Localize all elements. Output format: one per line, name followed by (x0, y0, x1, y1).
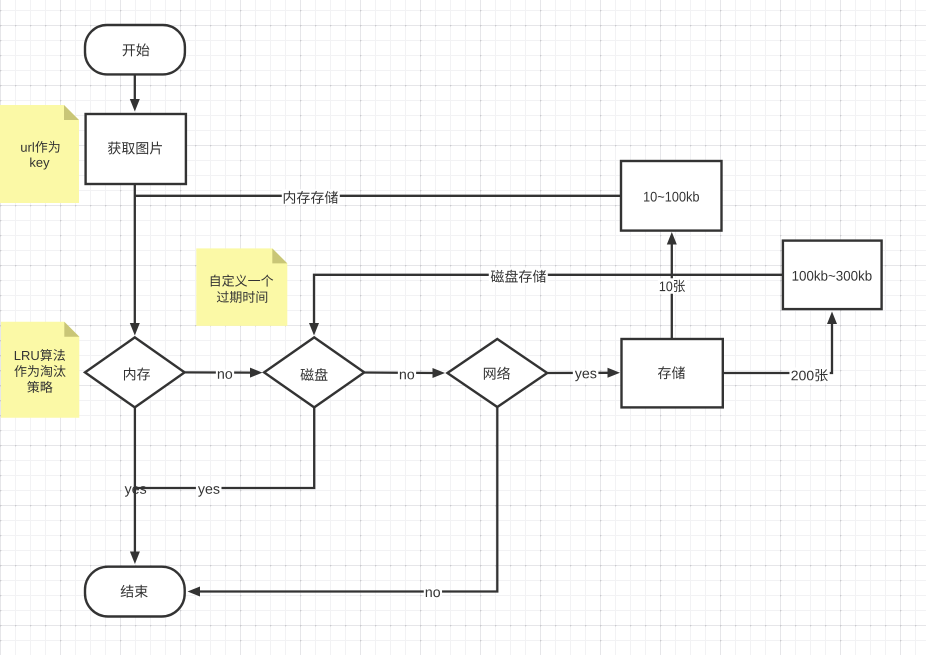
wire: 获取图片 → 10~100kb (内存存储 branch) (135, 195, 621, 197)
wire: 网络 → 结束 (no) (188, 407, 498, 597)
label: 10张 (658, 278, 687, 293)
process node: 存储 (622, 339, 723, 407)
process node: 获取图片 (86, 114, 186, 184)
label: no (网络→结束) (424, 588, 442, 599)
wire: 开始 → 获取图片 (130, 75, 140, 112)
wire: 磁盘 → merge into 内存→结束 line (yes) (136, 407, 314, 488)
label: no (内存→磁盘) (216, 370, 234, 381)
wire: 磁盘 → 网络 (no) (364, 368, 445, 378)
label: yes (磁盘 branch) (196, 485, 222, 499)
label: yes (网络→存储) (573, 369, 599, 383)
wire: 内存 → 结束 (yes) (130, 407, 140, 564)
label: no (磁盘→网络) (398, 370, 416, 381)
wire: 内存 → 磁盘 (no) (184, 368, 262, 378)
decision node: 网络 (447, 339, 547, 407)
label: yes (内存→结束, line passes through) (125, 486, 147, 497)
wire: 存储 → 10~100kb (10张) (667, 232, 677, 339)
data node: 10~100kb (621, 161, 722, 231)
terminator node: 结束 (end) (85, 567, 185, 617)
label: 磁盘存储 (489, 268, 548, 284)
decision node: 内存 (85, 337, 185, 407)
wire: 获取图片 → 内存 decision (130, 184, 140, 336)
data node: 100kb~300kb (783, 241, 882, 310)
terminator node: 开始 (start) (85, 25, 185, 74)
label: 200张 (789, 367, 829, 382)
sticky note: LRU算法作为淘汰策略 (1, 322, 79, 418)
wire: 100kb~300kb → 磁盘 (磁盘存储) (309, 275, 783, 336)
wire: 存储 → 100kb~300kb (200张) (723, 312, 837, 374)
sticky note: url作为key (0, 105, 79, 203)
label: 内存存储 (282, 189, 340, 205)
wire: 网络 → 存储 (yes) (547, 368, 620, 378)
decision node: 磁盘 (264, 337, 364, 407)
sticky note: 自定义一个过期时间 (196, 248, 287, 326)
